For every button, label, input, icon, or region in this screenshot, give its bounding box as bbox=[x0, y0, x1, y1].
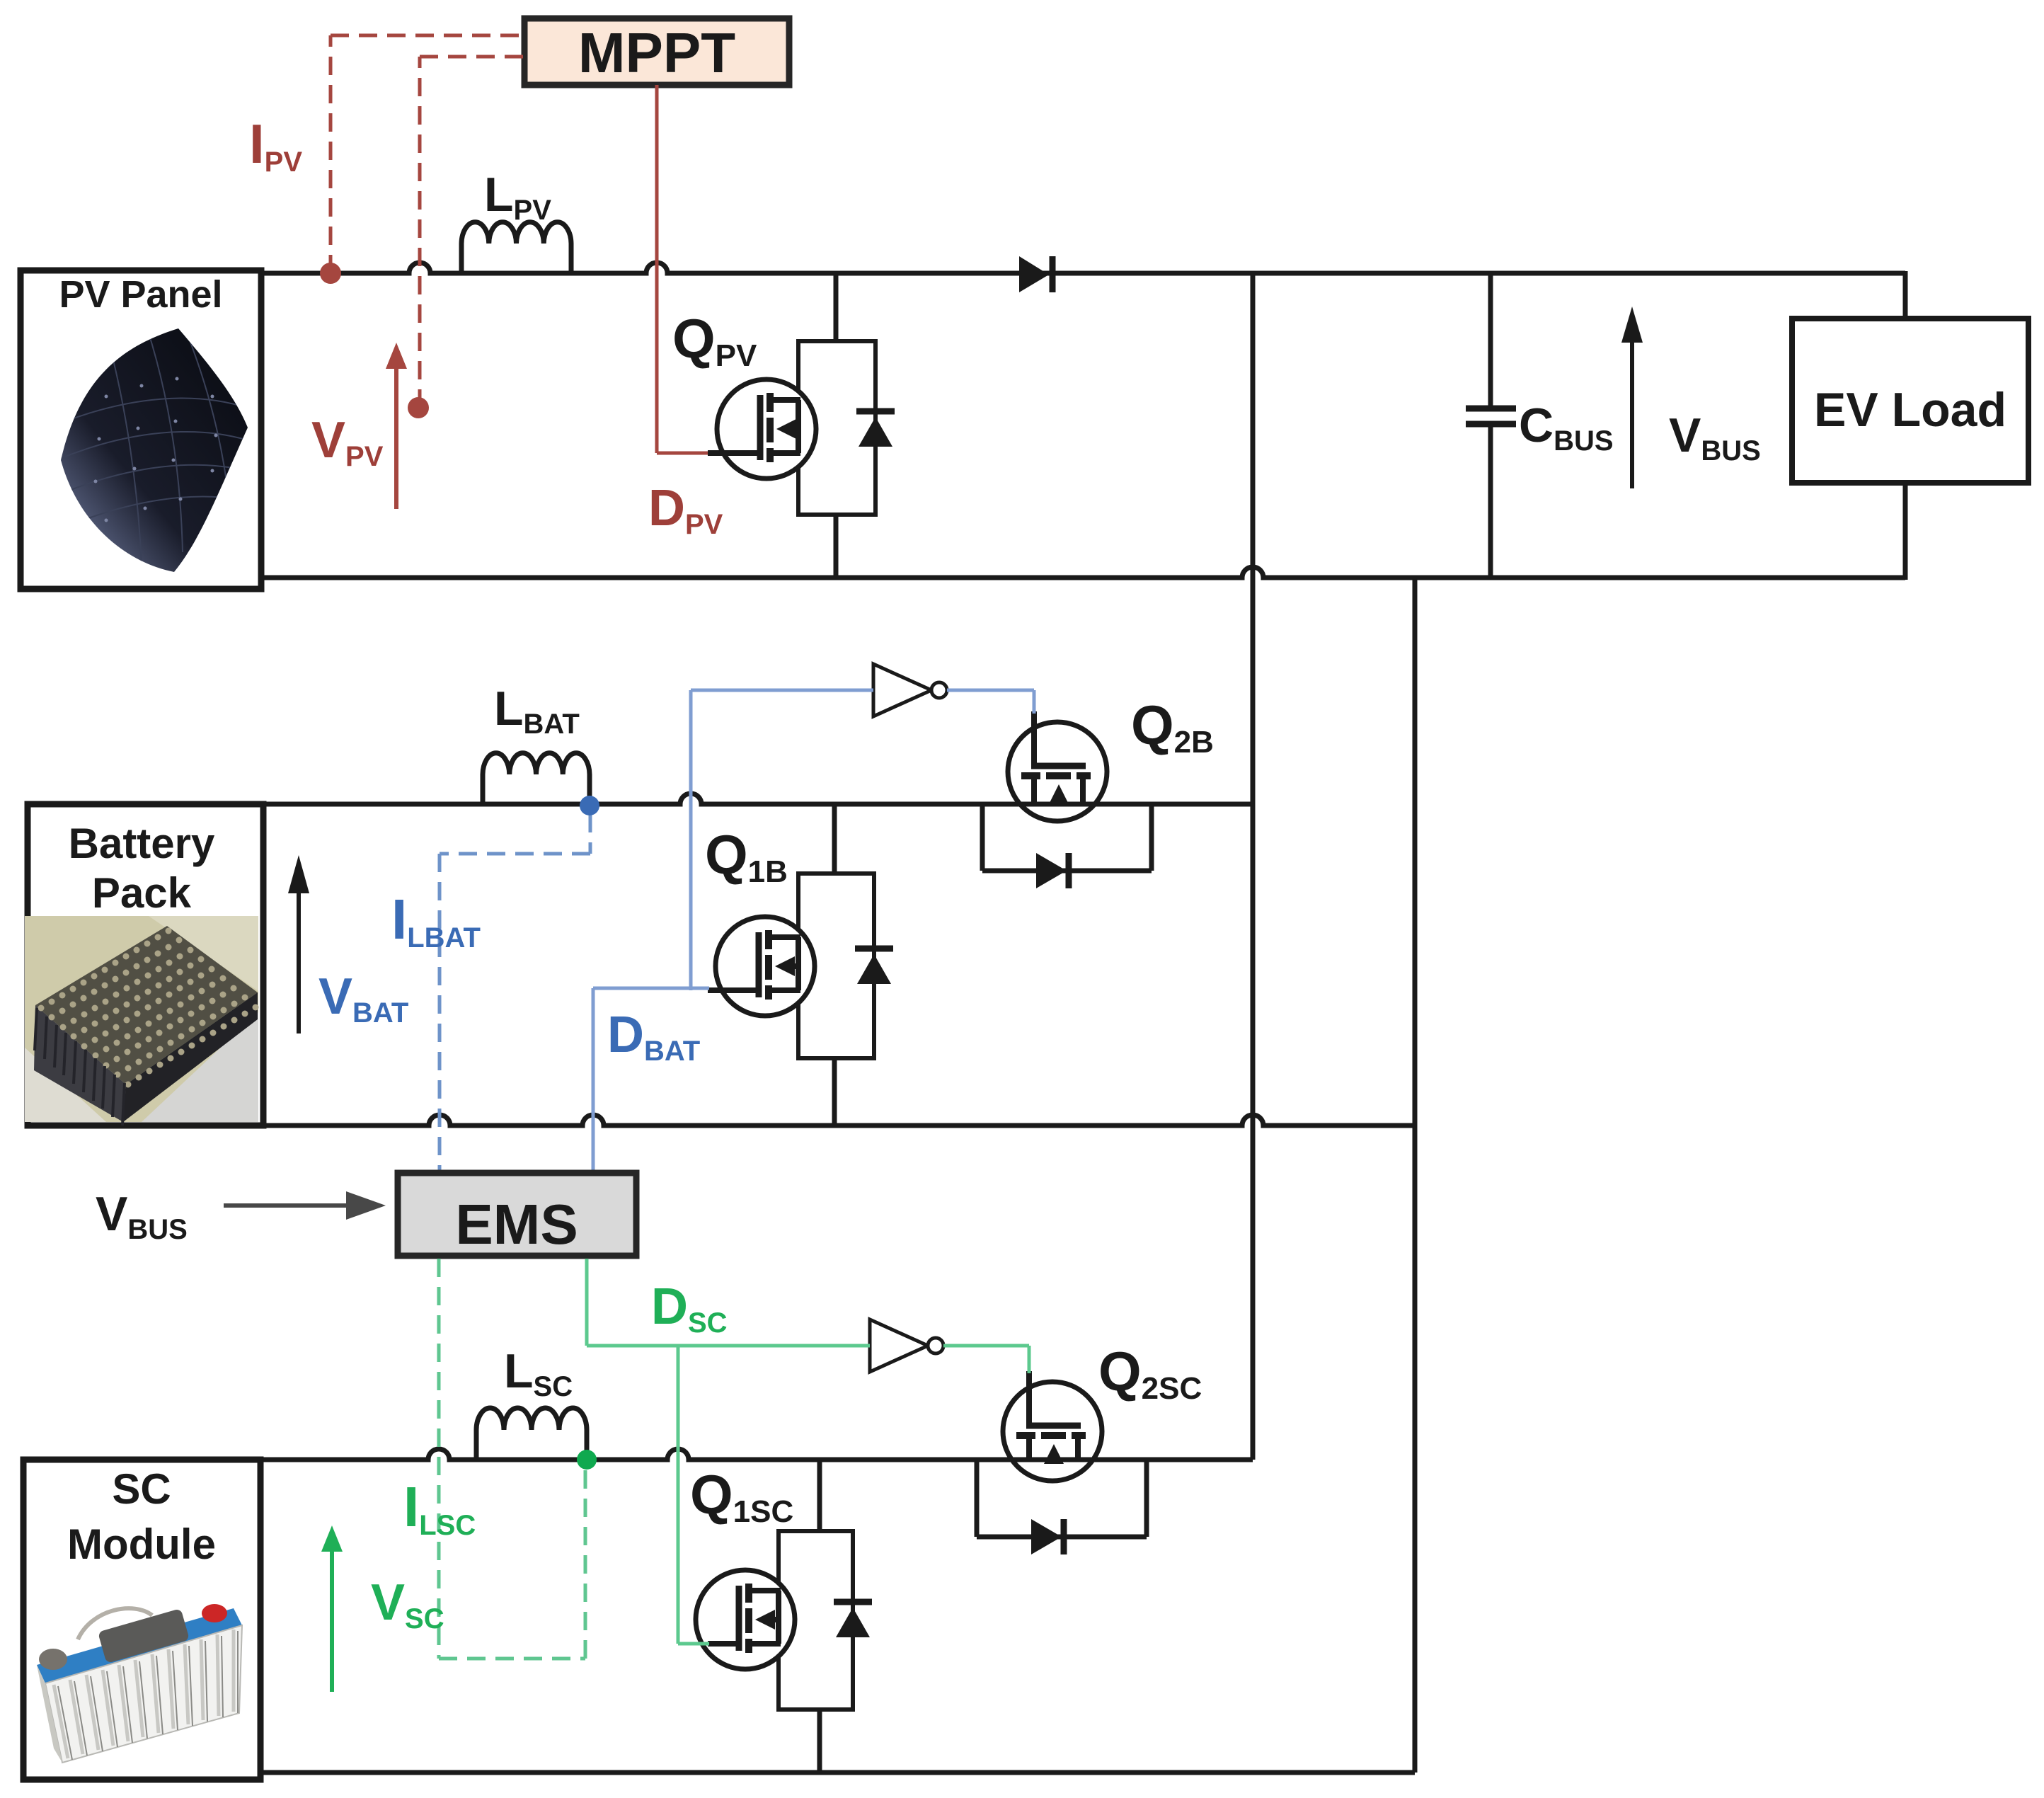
wire IPV sense (red dashed, node to MPPT) bbox=[331, 35, 524, 273]
inductor LSC bbox=[476, 1408, 587, 1460]
inductor LBAT bbox=[483, 753, 590, 804]
wire top PV rail (PV+ bus) bbox=[261, 263, 1905, 273]
body diode of Q1B bbox=[855, 949, 893, 984]
svg-text:EV Load: EV Load bbox=[1814, 383, 2006, 437]
inverter (NOT gate) U1 (battery gate inverter) bbox=[873, 664, 947, 716]
diode D1 (PV boost output diode) bbox=[1019, 256, 1052, 292]
wire VPV sense (red dashed, node to MPPT) bbox=[420, 57, 524, 408]
wire drain lead QPV (top) bbox=[834, 273, 839, 341]
svg-text:PV Panel: PV Panel bbox=[59, 273, 222, 316]
svg-text:EMS: EMS bbox=[455, 1193, 578, 1256]
transistor Q2SC bbox=[1003, 1371, 1102, 1481]
MPPT controller box bbox=[524, 18, 789, 85]
arrow VBUS direction (black) bbox=[1621, 307, 1643, 488]
capacitor CBUS bbox=[1466, 273, 1516, 578]
wire ILBAT sense (blue dashed, node to EMS) bbox=[440, 814, 590, 1174]
wire ILSC sense (green dashed, node to EMS) bbox=[439, 1259, 585, 1659]
body diode loop of Q2B bbox=[982, 804, 1152, 871]
wire vertical bus V1 (output bus) bbox=[1251, 273, 1256, 1460]
SC Module source box bbox=[23, 1460, 260, 1780]
wire EV Load bottom connection bbox=[1903, 483, 1908, 580]
svg-text:Pack: Pack bbox=[92, 869, 192, 917]
wire vertical bus V2 (ground bus) bbox=[1413, 578, 1418, 1773]
body diode of Q2SC bbox=[1031, 1519, 1064, 1554]
EMS controller box bbox=[398, 1173, 636, 1256]
body-diode loop rectangle QPV bbox=[798, 341, 875, 515]
arrow VBUS input to EMS (gray) bbox=[224, 1191, 386, 1220]
inductor LPV bbox=[461, 222, 571, 273]
wire battery bottom rail bbox=[263, 1115, 1415, 1126]
EV Load box bbox=[1792, 319, 2028, 483]
wire source lead Q1B (bottom) bbox=[832, 1058, 837, 1126]
wire DPV gate drive (red, MPPT to QPV gate) bbox=[657, 85, 708, 453]
body-diode loop rectangle Q1SC bbox=[779, 1531, 853, 1710]
node VPV tap (red dot) bbox=[408, 397, 429, 418]
Battery Pack source box bbox=[25, 804, 263, 1126]
transistor Q1SC bbox=[696, 1570, 795, 1669]
inverter (NOT gate) U2 (SC gate inverter) bbox=[870, 1319, 943, 1372]
wire PV bottom rail (ground bus) bbox=[261, 567, 1905, 578]
transistor QPV bbox=[708, 379, 816, 479]
wire battery top rail bbox=[263, 794, 1253, 804]
svg-text:SC: SC bbox=[112, 1465, 171, 1513]
transistor Q1B bbox=[708, 917, 815, 1016]
arrow VPV direction (red) bbox=[386, 343, 407, 509]
svg-text:MPPT: MPPT bbox=[578, 21, 735, 84]
wire SC top rail bbox=[260, 1449, 1253, 1460]
PV Panel source box bbox=[21, 270, 261, 589]
body diode of Q2B bbox=[1036, 853, 1069, 888]
wire drain lead Q1SC (top) bbox=[817, 1460, 822, 1531]
wire SC bottom rail bbox=[260, 1770, 1415, 1775]
body diode loop of Q2SC bbox=[977, 1460, 1147, 1537]
wire EV Load top connection bbox=[1903, 271, 1908, 319]
wire inverter output to Q2SC gate (green) bbox=[943, 1346, 1029, 1373]
wire DBAT gate drive (blue, EMS to Q1B gate and inverter) bbox=[593, 690, 873, 1174]
body diode of QPV bbox=[856, 411, 895, 447]
wire source lead Q1SC (bottom) bbox=[817, 1710, 822, 1773]
body diode of Q1SC bbox=[834, 1602, 872, 1637]
wire inverter output to Q2B gate (blue) bbox=[947, 690, 1034, 714]
svg-text:Module: Module bbox=[67, 1521, 216, 1568]
body-diode loop rectangle Q1B bbox=[798, 874, 874, 1058]
transistor Q2B bbox=[1008, 711, 1107, 821]
wire DSC gate drive (green, EMS to Q1SC gate and inverter) bbox=[587, 1259, 870, 1644]
arrow VBAT direction (black) bbox=[288, 855, 309, 1033]
node LBAT-Q1B junction (blue dot) bbox=[580, 796, 599, 815]
node IPV tap (red dot) bbox=[320, 263, 341, 284]
wire source lead QPV (bottom) bbox=[834, 515, 839, 578]
svg-text:Battery: Battery bbox=[69, 820, 215, 867]
arrow VSC direction (green) bbox=[321, 1525, 343, 1692]
node LSC-Q1SC junction (green dot) bbox=[577, 1450, 597, 1470]
wire drain lead Q1B (top) bbox=[832, 804, 837, 874]
